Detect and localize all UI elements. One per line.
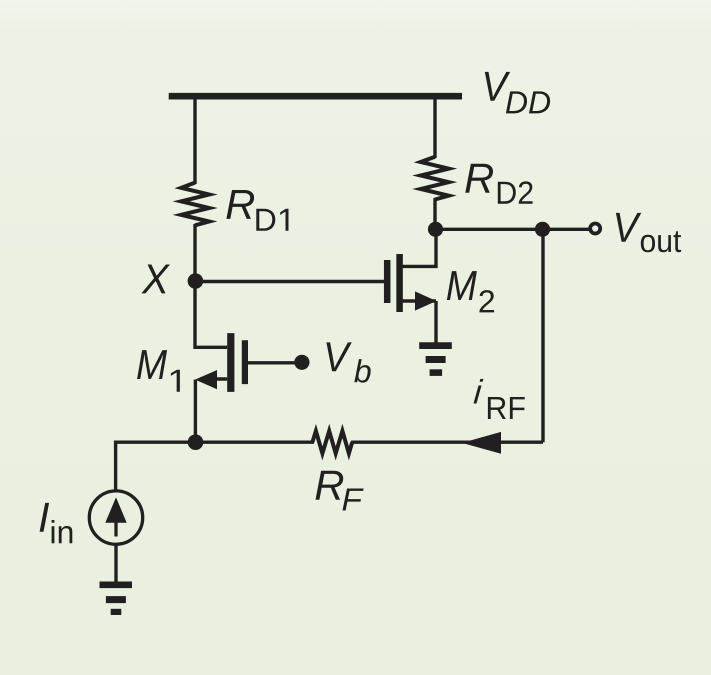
resistor RD1 (181, 183, 209, 226)
wire RF to feedback corner (351, 441, 543, 444)
wire M1 drain from node X (195, 281, 227, 347)
node bottom dot (188, 434, 204, 450)
label RF (316, 471, 364, 511)
ground Iin bar3 (111, 609, 122, 615)
power rail VDD (169, 93, 462, 100)
wire RD1 to node X (193, 224, 196, 281)
transistor M2 channel bar (396, 254, 403, 312)
label Iin (40, 503, 73, 543)
wire Iin to ground (114, 544, 117, 582)
resistor RF (312, 431, 352, 454)
transistor M1 source stub (200, 377, 227, 380)
label RD2 (465, 164, 532, 204)
transistor M1 gate lead (248, 361, 302, 364)
label Vb (326, 342, 370, 382)
transistor M2 source arrow (415, 291, 436, 310)
terminal Vout open circle (590, 224, 600, 234)
node X dot (188, 273, 204, 289)
label node X (141, 265, 170, 294)
label M2 (447, 271, 494, 312)
wire bottom node to Iin corner (116, 442, 196, 490)
wire output node to terminal (435, 228, 590, 231)
wire bottom node to RF (196, 441, 315, 444)
node Vb dot (294, 355, 309, 370)
resistor RD2 (421, 157, 449, 200)
transistor M1 gate bar (242, 340, 248, 384)
wire feedback vertical (541, 229, 544, 442)
current source Iin circle (89, 491, 142, 544)
wire VDD rail to RD2 (433, 96, 436, 158)
wire M1 source to bottom node (194, 380, 197, 443)
wire RD2 to output node (433, 198, 436, 229)
label Vout (616, 213, 681, 252)
transistor M2 source stub (400, 299, 436, 302)
transistor M1 source arrow (195, 370, 217, 389)
wire VDD rail to RD1 (193, 96, 196, 184)
current source Iin arrow head (105, 497, 126, 522)
wire node X to M2 gate (195, 280, 384, 283)
transistor M2 gate bar (384, 260, 391, 303)
label iRF (474, 379, 525, 419)
wire M2 source to ground (434, 301, 437, 343)
node feedback tap dot (535, 222, 550, 237)
ground M2 bar3 (430, 369, 443, 376)
label VDD (485, 72, 550, 114)
ground M2 bar1 (419, 342, 452, 349)
current source Iin arrow tail (114, 520, 117, 537)
node output dot at RD2 drain (428, 222, 443, 237)
ground Iin bar1 (100, 581, 133, 588)
transistor M1 channel bar (227, 333, 234, 392)
arrow current iRF (462, 432, 501, 454)
ground Iin bar2 (106, 596, 126, 603)
ground M2 bar2 (426, 356, 446, 363)
transistor M2 drain stub (400, 231, 436, 266)
label M1 (137, 350, 180, 392)
label RD1 (226, 190, 288, 231)
